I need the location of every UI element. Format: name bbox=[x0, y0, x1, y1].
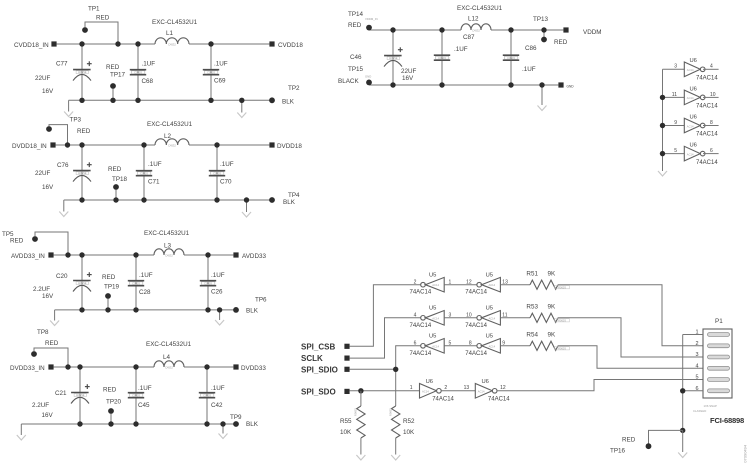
svg-text:C69: C69 bbox=[214, 78, 226, 85]
wire C45 vertical bbox=[135, 367, 137, 424]
svg-text:C4532: C4532 bbox=[168, 43, 176, 47]
wire C28 vertical bbox=[135, 255, 137, 310]
junction C26 main bbox=[205, 252, 210, 257]
junction ground stub VDDM bbox=[539, 82, 544, 87]
node DVDD33 output terminal bbox=[233, 364, 266, 372]
svg-text:TP20: TP20 bbox=[106, 399, 122, 406]
svg-text:6: 6 bbox=[710, 148, 713, 154]
svg-text:74AC14: 74AC14 bbox=[696, 76, 718, 82]
op-amp U6 inverter D 74AC14 bbox=[663, 143, 719, 166]
node DVDD18 output terminal bbox=[269, 142, 302, 150]
node SCLK bbox=[301, 354, 350, 363]
svg-text:AC14: AC14 bbox=[488, 344, 495, 348]
svg-text:EXC-CL4532U1: EXC-CL4532U1 bbox=[144, 230, 190, 237]
svg-text:R0603: R0603 bbox=[558, 285, 566, 289]
capacitor C46 electrolytic bbox=[350, 47, 417, 82]
node DVDD18_IN input terminal bbox=[12, 142, 56, 149]
svg-text:74AC14: 74AC14 bbox=[410, 351, 432, 357]
junction ground stub block 3 AVDD33 bbox=[217, 307, 222, 312]
node GND terminal bbox=[558, 82, 574, 88]
svg-text:C26: C26 bbox=[211, 289, 223, 296]
svg-text:2: 2 bbox=[444, 385, 447, 391]
capacitor C45 bbox=[128, 385, 152, 409]
svg-text:U5: U5 bbox=[486, 334, 493, 340]
svg-text:C46: C46 bbox=[350, 54, 362, 61]
svg-text:74AC14: 74AC14 bbox=[410, 290, 432, 296]
wire P1 ground stem bbox=[682, 430, 684, 452]
svg-text:C4532: C4532 bbox=[165, 254, 173, 258]
ground stub VDDM rail bbox=[538, 85, 547, 111]
svg-text:16V: 16V bbox=[402, 75, 414, 82]
svg-text:C0603: C0603 bbox=[203, 393, 211, 397]
svg-text:C45: C45 bbox=[138, 402, 150, 409]
labels block 3 AVDD33 bbox=[2, 231, 267, 315]
junction C42 rail bbox=[204, 421, 209, 426]
test point TP13 bbox=[533, 16, 568, 46]
junction C21 rail bbox=[77, 421, 82, 426]
svg-text:RED: RED bbox=[45, 340, 59, 347]
svg-text:ACASE: ACASE bbox=[78, 71, 87, 74]
svg-text:ACASE: ACASE bbox=[78, 172, 87, 175]
svg-text:22UF: 22UF bbox=[35, 170, 51, 177]
wire SPI_SDIO to R52 bbox=[395, 369, 397, 406]
junction C28 main bbox=[133, 252, 138, 257]
svg-text:TP16: TP16 bbox=[610, 447, 626, 454]
op-amp U5 inverter C1 74AC14 bbox=[410, 334, 452, 357]
node CVDD18_IN input terminal bbox=[14, 41, 57, 48]
svg-text:SPI_SDO: SPI_SDO bbox=[301, 388, 336, 397]
capacitor C42 bbox=[199, 385, 225, 409]
svg-text:C86: C86 bbox=[525, 45, 537, 52]
svg-text:16V: 16V bbox=[42, 293, 54, 300]
resistor R55 10K bbox=[340, 391, 365, 455]
junction ground stub block 4 DVDD33 bbox=[220, 421, 225, 426]
wire main line block 1 CVDD18 bbox=[57, 43, 270, 45]
svg-text:ACASE: ACASE bbox=[76, 394, 85, 397]
svg-text:SPI_CSB: SPI_CSB bbox=[301, 343, 335, 352]
svg-text:11: 11 bbox=[672, 92, 677, 98]
ground left rail block 1 CVDD18 bbox=[64, 112, 73, 117]
svg-text:FCI-68898: FCI-68898 bbox=[710, 416, 744, 425]
test point TP3 bbox=[46, 125, 67, 145]
svg-text:U6: U6 bbox=[482, 379, 489, 385]
svg-text:C70: C70 bbox=[220, 179, 232, 186]
svg-text:C0603: C0603 bbox=[132, 281, 140, 285]
junction C20 rail bbox=[79, 307, 84, 312]
wire main line block 3 AVDD33 bbox=[54, 254, 234, 256]
svg-text:.1UF: .1UF bbox=[138, 385, 152, 392]
svg-text:R51: R51 bbox=[526, 271, 538, 278]
resistor R52 10K bbox=[388, 406, 415, 455]
wire C70 vertical bbox=[216, 145, 218, 200]
svg-text:L12: L12 bbox=[468, 16, 479, 23]
svg-text:DVDD33: DVDD33 bbox=[241, 365, 266, 372]
svg-text:EXC-CL4532U1: EXC-CL4532U1 bbox=[457, 5, 503, 12]
node AVDD33_IN input terminal bbox=[11, 252, 54, 260]
wire A2 to R51 bbox=[500, 284, 530, 286]
svg-text:.1UF: .1UF bbox=[142, 60, 156, 67]
svg-text:RED: RED bbox=[103, 387, 117, 394]
svg-text:U6: U6 bbox=[690, 86, 697, 92]
svg-text:CVDD18: CVDD18 bbox=[278, 42, 303, 49]
svg-text:ACASE: ACASE bbox=[389, 57, 398, 60]
node AVDD33 output terminal bbox=[233, 252, 266, 260]
node SPI_CSB bbox=[301, 343, 350, 352]
svg-text:C4532: C4532 bbox=[165, 366, 173, 370]
svg-text:4: 4 bbox=[710, 64, 713, 70]
junction TP8 on main line bbox=[65, 364, 70, 369]
wire C69 vertical bbox=[210, 44, 212, 100]
wire A1-A2 bbox=[444, 284, 477, 286]
wire C46 vertical bbox=[392, 30, 394, 85]
svg-text:TP6: TP6 bbox=[255, 297, 267, 304]
svg-text:R0603: R0603 bbox=[558, 347, 566, 351]
wire bottom rail block 2 DVDD18 bbox=[64, 199, 272, 201]
svg-text:ACASE: ACASE bbox=[78, 282, 87, 285]
svg-text:C76: C76 bbox=[57, 162, 69, 169]
svg-text:AC14: AC14 bbox=[488, 316, 495, 320]
junction C45 rail bbox=[133, 421, 138, 426]
junction C68 rail bbox=[135, 98, 140, 103]
junction C77 rail bbox=[79, 98, 84, 103]
capacitor C21 electrolytic bbox=[71, 384, 90, 403]
wire SPI_SDO line bbox=[350, 390, 420, 392]
svg-text:8: 8 bbox=[710, 120, 713, 126]
test point TP17 bbox=[110, 83, 116, 100]
ground P1 bbox=[678, 453, 687, 458]
svg-text:R55: R55 bbox=[340, 418, 352, 425]
svg-text:74AC14: 74AC14 bbox=[488, 397, 510, 403]
svg-text:RED: RED bbox=[96, 15, 110, 22]
svg-text:6: 6 bbox=[414, 340, 417, 346]
svg-text:1: 1 bbox=[410, 385, 413, 391]
svg-text:C4532: C4532 bbox=[168, 144, 176, 148]
svg-text:DVDD33_IN: DVDD33_IN bbox=[10, 365, 45, 372]
svg-text:TP1: TP1 bbox=[88, 6, 100, 13]
svg-text:74AC14: 74AC14 bbox=[465, 323, 487, 329]
svg-text:.1UF: .1UF bbox=[220, 161, 234, 168]
ground stub block 1 CVDD18 bbox=[237, 100, 246, 117]
capacitor C20 electrolytic bbox=[73, 272, 92, 291]
test point TP19 bbox=[105, 293, 111, 310]
wire C20 vertical bbox=[81, 255, 83, 310]
connector P1 pin 2 slot bbox=[695, 341, 729, 348]
svg-text:1X6 SNAP: 1X6 SNAP bbox=[704, 404, 718, 408]
svg-text:RED: RED bbox=[106, 64, 120, 71]
svg-text:RED: RED bbox=[108, 166, 122, 173]
wire B1-B2 bbox=[444, 317, 477, 319]
wire R53 to connector bbox=[558, 318, 703, 357]
ground stub block 3 AVDD33 bbox=[215, 310, 224, 325]
svg-text:L1: L1 bbox=[166, 30, 174, 37]
junction C46 main bbox=[390, 27, 395, 32]
svg-text:74AC14: 74AC14 bbox=[465, 290, 487, 296]
capacitor C71 bbox=[136, 161, 162, 186]
svg-text:C77: C77 bbox=[56, 60, 68, 67]
svg-text:GND: GND bbox=[365, 75, 371, 79]
junction TP18 rail bbox=[113, 197, 118, 202]
svg-text:U5: U5 bbox=[429, 273, 436, 279]
svg-text:10: 10 bbox=[466, 312, 472, 318]
junction C86 main bbox=[508, 27, 513, 32]
svg-text:C0603: C0603 bbox=[207, 70, 215, 74]
svg-text:R53: R53 bbox=[526, 304, 538, 311]
svg-text:R54: R54 bbox=[526, 332, 538, 339]
ground left rail block 3 AVDD33 bbox=[50, 321, 59, 326]
ground stub block 2 DVDD18 bbox=[242, 200, 251, 217]
svg-text:TP15: TP15 bbox=[348, 66, 364, 73]
svg-text:SCLK: SCLK bbox=[301, 354, 323, 363]
node DVDD33_IN input terminal bbox=[10, 364, 54, 372]
svg-text:AC14: AC14 bbox=[432, 283, 439, 287]
svg-text:16V: 16V bbox=[42, 88, 54, 95]
junction TP5 on main line bbox=[65, 252, 70, 257]
resistor R51 9K bbox=[526, 271, 569, 290]
svg-text:9K: 9K bbox=[548, 304, 557, 311]
svg-text:TP9: TP9 bbox=[230, 414, 242, 421]
junction C42 main bbox=[204, 364, 209, 369]
svg-text:C0603: C0603 bbox=[213, 171, 221, 175]
capacitor C76 electrolytic bbox=[73, 162, 92, 181]
svg-text:GND: GND bbox=[567, 84, 575, 88]
svg-text:VDDM: VDDM bbox=[583, 29, 602, 36]
test point TP5 bbox=[32, 232, 68, 255]
connector P1 pin 4 slot bbox=[695, 363, 729, 370]
svg-text:AC14: AC14 bbox=[488, 283, 495, 287]
wire bottom rail block 4 DVDD33 bbox=[21, 423, 236, 425]
wire C71 vertical bbox=[143, 145, 145, 200]
wire VDDM ground rail bbox=[369, 84, 558, 86]
svg-text:3: 3 bbox=[695, 352, 698, 358]
svg-text:P1: P1 bbox=[715, 318, 723, 325]
svg-text:U6: U6 bbox=[426, 379, 433, 385]
svg-text:C0603: C0603 bbox=[140, 171, 148, 175]
test point TP2 BLK bbox=[269, 97, 275, 103]
node CVDD18 output terminal bbox=[269, 41, 303, 49]
svg-text:EXC-CL4532U1: EXC-CL4532U1 bbox=[146, 341, 192, 348]
junction C45 main bbox=[133, 364, 138, 369]
svg-text:2: 2 bbox=[695, 341, 698, 347]
wire D1-D2 bbox=[441, 390, 475, 392]
svg-text:AC14: AC14 bbox=[432, 344, 439, 348]
junction TP17 rail bbox=[110, 98, 115, 103]
capacitor C86 bbox=[503, 45, 537, 73]
svg-text:.1UF: .1UF bbox=[211, 272, 225, 279]
svg-text:TP18: TP18 bbox=[112, 176, 128, 183]
capacitor C70 bbox=[209, 161, 234, 186]
resistor R54 9K bbox=[526, 332, 569, 351]
labels block 4 DVDD33 bbox=[32, 329, 259, 428]
svg-text:9: 9 bbox=[674, 120, 677, 126]
svg-text:R0603: R0603 bbox=[354, 408, 358, 416]
svg-text:13: 13 bbox=[464, 385, 470, 391]
svg-text:U5: U5 bbox=[486, 273, 493, 279]
svg-text:TP19: TP19 bbox=[104, 284, 120, 291]
svg-text:EXC-CL4532U1: EXC-CL4532U1 bbox=[152, 19, 198, 26]
svg-text:BLK: BLK bbox=[246, 308, 259, 315]
svg-text:22UF: 22UF bbox=[401, 68, 417, 75]
svg-text:8: 8 bbox=[469, 340, 472, 346]
svg-text:C68: C68 bbox=[142, 78, 154, 85]
wire C76 vertical bbox=[81, 145, 83, 200]
svg-text:DVDD18: DVDD18 bbox=[277, 143, 302, 150]
svg-text:L3: L3 bbox=[164, 243, 172, 250]
wire SPI_SDO to connector pin 5 bbox=[497, 380, 703, 391]
svg-text:C21: C21 bbox=[55, 390, 67, 397]
svg-text:C0603: C0603 bbox=[507, 56, 515, 60]
svg-text:74AC14: 74AC14 bbox=[696, 160, 718, 166]
capacitor C68 bbox=[130, 60, 155, 85]
junction C76 rail bbox=[79, 197, 84, 202]
connector P1 body bbox=[703, 318, 732, 398]
op-amp U6 inverter D2 74AC14 bbox=[464, 379, 511, 403]
svg-text:22UF: 22UF bbox=[35, 75, 51, 82]
connector P1 pin 3 slot bbox=[695, 352, 729, 359]
wire U6 spare input bus bbox=[662, 69, 664, 171]
svg-text:AC14: AC14 bbox=[687, 96, 694, 100]
junction TP13 main bbox=[541, 27, 546, 32]
test point TP8 bbox=[31, 348, 68, 367]
svg-text:U6: U6 bbox=[690, 114, 697, 120]
ground U6 spare bus bbox=[658, 171, 667, 176]
svg-text:.1UF: .1UF bbox=[454, 46, 468, 53]
wire rail-left ground stem block 2 DVDD18 bbox=[63, 200, 65, 212]
node SPI_SDIO bbox=[301, 365, 350, 374]
capacitor C28 bbox=[128, 272, 153, 296]
junction TP1 on main line bbox=[115, 41, 120, 46]
svg-text:12: 12 bbox=[466, 279, 472, 285]
junction C20 main bbox=[79, 252, 84, 257]
junction C70 rail bbox=[214, 197, 219, 202]
wire P1 pin 1 to ground bus bbox=[683, 335, 703, 431]
resistor R53 9K bbox=[526, 304, 569, 323]
labels block 2 DVDD18 bbox=[35, 117, 300, 207]
connector P1 pin 6 slot bbox=[695, 386, 729, 393]
test point TP1 bbox=[82, 22, 118, 44]
svg-text:R52: R52 bbox=[403, 418, 415, 425]
node SPI_SDO bbox=[301, 388, 350, 397]
ground stub block 4 DVDD33 bbox=[219, 424, 228, 439]
junction C69 main bbox=[208, 41, 213, 46]
svg-text:5: 5 bbox=[695, 375, 698, 381]
svg-text:AVDD33: AVDD33 bbox=[242, 253, 267, 260]
svg-text:AC14: AC14 bbox=[687, 152, 694, 156]
svg-text:4: 4 bbox=[695, 363, 698, 369]
wire C1-C2 bbox=[444, 345, 477, 347]
wire R51 to connector bbox=[558, 285, 703, 346]
svg-text:C87: C87 bbox=[463, 34, 475, 41]
svg-text:AC14: AC14 bbox=[422, 390, 429, 394]
junction C71 main bbox=[141, 142, 146, 147]
wire TP16 branch bbox=[649, 430, 683, 443]
junction C77 main bbox=[79, 41, 84, 46]
capacitor C87 bbox=[434, 34, 475, 60]
svg-text:10: 10 bbox=[710, 92, 716, 98]
svg-text:AC14: AC14 bbox=[687, 68, 694, 72]
wire C87 vertical bbox=[441, 30, 443, 85]
svg-text:BLACK: BLACK bbox=[338, 78, 359, 85]
svg-text:BLK: BLK bbox=[283, 199, 296, 206]
wire main line block 4 DVDD33 bbox=[54, 366, 234, 368]
wire C21 vertical bbox=[79, 367, 81, 424]
labels P1 part bbox=[693, 404, 744, 425]
inductor L4 EXC-CL4532U1 bbox=[146, 341, 192, 370]
svg-text:TP4: TP4 bbox=[288, 192, 300, 199]
svg-text:C4532: C4532 bbox=[472, 29, 480, 33]
svg-text:U6: U6 bbox=[690, 58, 697, 64]
junction TP19 rail bbox=[105, 307, 110, 312]
svg-text:C0603: C0603 bbox=[132, 393, 140, 397]
wire SPI_SDIO to row C bbox=[350, 346, 421, 370]
wire rail-left ground stem block 4 DVDD33 bbox=[20, 424, 22, 435]
svg-text:16V: 16V bbox=[42, 184, 54, 191]
svg-text:C0603: C0603 bbox=[134, 70, 142, 74]
junction P1 pin 6 ground bbox=[680, 388, 685, 393]
ground R52 bbox=[391, 455, 400, 460]
op-amp U5 inverter B2 74AC14 bbox=[465, 306, 507, 329]
junction C46 rail bbox=[390, 82, 395, 87]
svg-text:74AC14: 74AC14 bbox=[696, 132, 718, 138]
svg-text:4: 4 bbox=[414, 312, 417, 318]
op-amp U5 inverter A1 74AC14 bbox=[410, 273, 452, 296]
junction U6 bus row 4 bbox=[660, 151, 665, 156]
svg-text:C0603: C0603 bbox=[438, 56, 446, 60]
junction C69 rail bbox=[208, 98, 213, 103]
test point TP18 bbox=[113, 184, 119, 200]
svg-text:16V: 16V bbox=[42, 412, 54, 419]
svg-text:RED: RED bbox=[10, 238, 24, 245]
op-amp U6 inverter B 74AC14 bbox=[663, 86, 719, 109]
svg-text:L4: L4 bbox=[163, 354, 171, 361]
inductor L12 EXC-CL4532U1 bbox=[457, 5, 503, 33]
svg-text:U5: U5 bbox=[429, 334, 436, 340]
junction U6 bus row 3 bbox=[660, 123, 665, 128]
svg-text:SPI_SDIO: SPI_SDIO bbox=[301, 365, 338, 374]
ground R55 bbox=[356, 455, 365, 460]
svg-text:5: 5 bbox=[674, 148, 677, 154]
junction C70 main bbox=[214, 142, 219, 147]
wire C26 vertical bbox=[207, 255, 209, 310]
capacitor C69 bbox=[203, 61, 228, 85]
svg-text:.1UF: .1UF bbox=[139, 272, 153, 279]
svg-text:U5: U5 bbox=[429, 306, 436, 312]
svg-text:.1UF: .1UF bbox=[522, 66, 536, 73]
svg-text:07090494: 07090494 bbox=[743, 444, 748, 463]
svg-text:C71: C71 bbox=[148, 179, 160, 186]
svg-text:R0603: R0603 bbox=[558, 319, 566, 323]
wire SPI_CSB to row A bbox=[350, 285, 421, 347]
ground left rail block 2 DVDD18 bbox=[59, 212, 68, 217]
test point TP20 bbox=[108, 408, 114, 424]
wire R54 to connector bbox=[558, 346, 703, 369]
capacitor C77 electrolytic bbox=[73, 61, 92, 80]
wire bottom rail block 1 CVDD18 bbox=[69, 99, 272, 101]
svg-text:74AC14: 74AC14 bbox=[696, 104, 718, 110]
test point TP9 BLK bbox=[233, 421, 239, 427]
junction TP3 on main line bbox=[65, 142, 70, 147]
svg-text:RED: RED bbox=[77, 128, 91, 135]
svg-text:U5: U5 bbox=[486, 306, 493, 312]
wire main line block 2 DVDD18 bbox=[56, 144, 270, 146]
op-amp U6 inverter C 74AC14 bbox=[663, 114, 719, 137]
connector P1 pin 1 slot bbox=[695, 330, 729, 337]
svg-text:RED: RED bbox=[348, 22, 362, 29]
wire C68 vertical bbox=[137, 44, 139, 100]
test point TP6 BLK bbox=[233, 307, 239, 313]
svg-text:C42: C42 bbox=[211, 402, 223, 409]
wire C42 vertical bbox=[206, 367, 208, 424]
svg-text:BLK: BLK bbox=[246, 421, 259, 428]
